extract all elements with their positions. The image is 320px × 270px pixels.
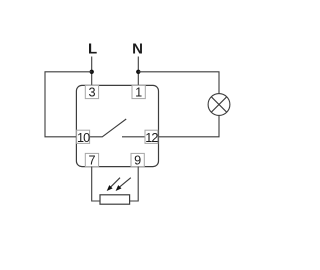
wire terminal 7 to sensor	[92, 167, 100, 201]
wire N branch to lamp	[138, 72, 219, 94]
twilight switch body U1	[76, 85, 158, 166]
node N	[132, 40, 143, 57]
terminal 9	[131, 153, 144, 167]
svg-text:3: 3	[88, 86, 95, 100]
svg-text:10: 10	[77, 131, 90, 145]
wire L branch to terminal 10	[45, 72, 92, 137]
svg-text:9: 9	[134, 154, 141, 168]
wire L supply drop to terminal 3	[91, 57, 93, 86]
light arrow 2	[116, 178, 131, 191]
wire N supply drop to terminal 1	[137, 57, 139, 86]
light arrow 1	[107, 178, 120, 191]
svg-text:N: N	[132, 40, 143, 57]
terminal 12	[145, 130, 158, 145]
photo sensor R1 body	[100, 195, 130, 204]
terminal 3	[85, 85, 98, 99]
svg-text:7: 7	[88, 154, 95, 168]
junction L	[90, 70, 94, 74]
lamp E1	[208, 94, 230, 116]
svg-text:L: L	[88, 40, 97, 57]
node L	[88, 40, 97, 57]
terminal 7	[85, 153, 98, 167]
terminal 10	[77, 130, 91, 145]
wire lamp to terminal 12	[158, 115, 219, 136]
junction N	[136, 70, 140, 74]
svg-text:12: 12	[145, 131, 158, 145]
switch contact arm 10-12	[90, 119, 145, 137]
wire terminal 9 to sensor	[130, 167, 139, 201]
svg-text:1: 1	[135, 86, 142, 100]
terminal 1	[132, 85, 145, 99]
